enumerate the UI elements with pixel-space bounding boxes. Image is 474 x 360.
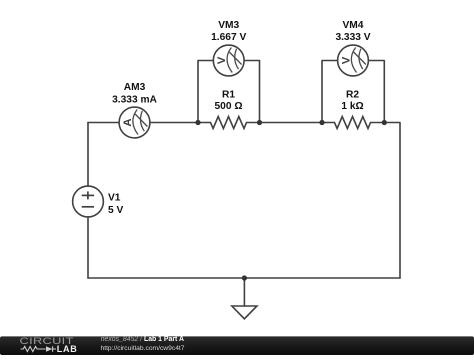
svg-text:5 V: 5 V	[108, 205, 123, 216]
svg-text:nexos_8452 / Lab 1 Part A: nexos_8452 / Lab 1 Part A	[101, 336, 184, 343]
node A junction dot	[195, 120, 200, 125]
label VM3 value	[211, 20, 246, 43]
credits text	[101, 336, 185, 352]
wire VM4 right lead	[369, 61, 385, 123]
wire bottom horizontal	[88, 277, 400, 279]
label VM4 value	[335, 20, 370, 43]
svg-text:LAB: LAB	[57, 344, 78, 354]
wire node B to node C	[260, 122, 323, 124]
node GND junction dot	[242, 275, 247, 280]
svg-text:V1: V1	[108, 193, 121, 204]
svg-text:AM3: AM3	[124, 82, 146, 93]
svg-text:VM3: VM3	[218, 20, 239, 31]
wire top from left corner to AM3	[88, 122, 119, 124]
voltmeter VM4	[338, 45, 369, 76]
svg-text:V: V	[216, 56, 228, 64]
svg-text:500 Ω: 500 Ω	[215, 101, 243, 112]
svg-text:R1: R1	[222, 90, 235, 101]
svg-text:V: V	[341, 56, 353, 64]
footer bar	[0, 336, 474, 355]
ground	[232, 306, 257, 319]
svg-text:1 kΩ: 1 kΩ	[341, 101, 363, 112]
ammeter AM3	[119, 107, 150, 138]
resistor R2	[322, 117, 384, 129]
wire ground stub	[243, 278, 245, 306]
label R2 value	[341, 90, 363, 112]
node B junction dot	[257, 120, 262, 125]
svg-text:3.333 V: 3.333 V	[335, 32, 370, 43]
CircuitLab logo	[20, 337, 78, 355]
label AM3 value	[112, 82, 157, 105]
node C junction dot	[319, 120, 324, 125]
label R1 value	[215, 90, 243, 112]
wire AM3 to node A	[150, 122, 198, 124]
voltmeter VM3	[213, 45, 244, 76]
svg-text:R2: R2	[346, 90, 359, 101]
wire left vertical (V1 branch)	[87, 123, 89, 187]
svg-text:3.333 mA: 3.333 mA	[112, 94, 157, 105]
label V1 value	[108, 193, 123, 216]
svg-text:VM4: VM4	[343, 20, 364, 31]
wire VM3 left lead	[198, 61, 214, 123]
resistor R1	[198, 117, 260, 129]
voltage source V1	[73, 186, 104, 217]
node D junction dot	[382, 120, 387, 125]
svg-text:A: A	[122, 118, 134, 126]
wire VM3 right lead	[244, 61, 260, 123]
svg-text:1.667 V: 1.667 V	[211, 32, 246, 43]
wire VM4 left lead	[322, 61, 338, 123]
wire node D to top-right corner and right vertical	[384, 123, 400, 279]
svg-text:http://circuitlab.com/cw9c4t7: http://circuitlab.com/cw9c4t7	[101, 345, 185, 352]
